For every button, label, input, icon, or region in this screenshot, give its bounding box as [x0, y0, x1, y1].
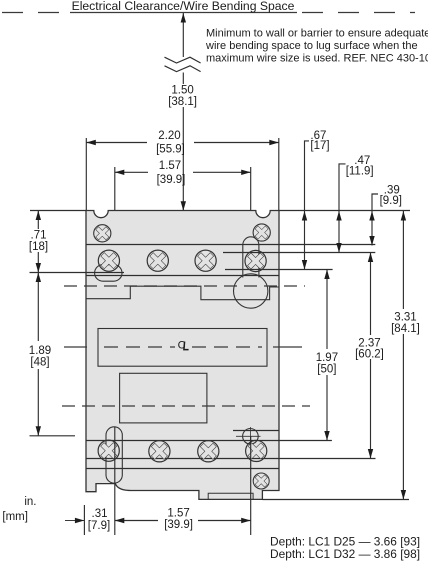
- power terminal screw L2: [145, 248, 170, 273]
- svg-text:1.57: 1.57: [159, 160, 181, 172]
- bottom-right mounting hole: [243, 429, 259, 445]
- svg-text:[55.9]: [55.9]: [156, 144, 185, 156]
- svg-text:[38.1]: [38.1]: [168, 96, 197, 108]
- dimension .67 [17] right: [305, 141, 310, 270]
- svg-text:[39.9]: [39.9]: [157, 174, 186, 186]
- svg-text:1.50: 1.50: [171, 85, 193, 97]
- svg-text:maximum wire size is used. REF: maximum wire size is used. REF. NEC 430-…: [206, 52, 428, 64]
- break symbol: [165, 57, 201, 71]
- svg-text:3.31: 3.31: [394, 312, 416, 324]
- clearance boundary dashed line: [2, 12, 415, 14]
- svg-text:1.89: 1.89: [29, 345, 51, 357]
- dimension 2.37 [60.2] right: [370, 253, 372, 459]
- svg-text:Minimum to wall or barrier to: Minimum to wall or barrier to ensure ade…: [206, 27, 428, 39]
- coil terminal screw bottom-right: [252, 472, 270, 490]
- svg-text:1.57: 1.57: [167, 508, 189, 520]
- right keyhole slot: [243, 237, 259, 278]
- left mounting slot (stadium): [95, 265, 122, 282]
- dimension 1.57 [39.9] bottom: [115, 520, 251, 522]
- svg-text:[18]: [18]: [29, 241, 48, 253]
- dimension .71 [18] left: [30, 211, 125, 273]
- svg-text:[mm]: [mm]: [2, 511, 28, 523]
- dimension .39 [9.9] right: [372, 194, 378, 246]
- reference extension lines to right-side dimensions: [263, 211, 411, 500]
- contactor body outline: [86, 211, 279, 500]
- wire bending space dashed line upper: [64, 285, 305, 287]
- centerline dashes: [64, 346, 302, 348]
- svg-text:[48]: [48]: [30, 357, 49, 369]
- svg-text:wire bending space to lug surf: wire bending space to lug surface when t…: [205, 40, 418, 52]
- svg-text:Depth: LC1 D32 — 3.86 [98]: Depth: LC1 D32 — 3.86 [98]: [270, 547, 420, 561]
- svg-text:[17]: [17]: [310, 140, 329, 152]
- bottom dimension extension lines: [84, 427, 250, 535]
- wire bending space dashed line lower: [62, 405, 310, 407]
- internal horizontal lines top strip: [86, 245, 279, 469]
- coil terminal screw A1 top-left: [92, 223, 112, 243]
- dimension 1.97 [50] right: [326, 270, 328, 441]
- svg-text:.71: .71: [31, 230, 47, 242]
- auxiliary terminal screw bottom-right: [244, 439, 269, 464]
- svg-text:in.: in.: [24, 496, 36, 508]
- power terminal screw L1: [97, 248, 122, 273]
- svg-text:Electrical Clearance/Wire Bend: Electrical Clearance/Wire Bending Space: [72, 0, 295, 13]
- power terminal screw T2: [147, 439, 172, 464]
- svg-text:[50]: [50]: [317, 364, 336, 376]
- DIN rail tab inner line: [208, 493, 253, 499]
- svg-text:[84.1]: [84.1]: [391, 323, 420, 335]
- svg-text:2.20: 2.20: [158, 130, 180, 142]
- dimension .47 [11.9] right: [339, 164, 346, 253]
- dimension 1.89 [48] left: [30, 273, 76, 436]
- dimension 1.57 [39.9] top: [115, 167, 251, 291]
- right keyhole circle: [234, 274, 268, 308]
- svg-text:[9.9]: [9.9]: [380, 195, 402, 207]
- svg-text:[39.9]: [39.9]: [164, 519, 193, 531]
- coil terminal screw A2 top-right: [252, 223, 272, 243]
- power terminal screw T3: [196, 439, 221, 464]
- svg-text:[7.9]: [7.9]: [88, 520, 110, 532]
- svg-text:[60.2]: [60.2]: [355, 349, 384, 361]
- svg-text:.31: .31: [92, 508, 108, 520]
- power terminal screw L3: [193, 248, 218, 273]
- power terminal screw T1: [96, 438, 121, 463]
- bottom-left mounting slot: [106, 427, 122, 483]
- dimension .31 [7.9] bottom: [65, 520, 84, 522]
- dimension 2.20 [55.9]: [86, 138, 278, 210]
- dimension 3.31 [84.1] right: [402, 211, 404, 500]
- lower rectangle (coil window): [120, 373, 207, 423]
- dimension 1.50 [38.1] vertical leader with break: [182, 13, 184, 210]
- center band rectangle: [98, 329, 267, 367]
- svg-text:1.97: 1.97: [316, 352, 338, 364]
- svg-text:[11.9]: [11.9]: [346, 166, 374, 178]
- cover step outline: [86, 286, 279, 300]
- auxiliary terminal screw top-right: [243, 249, 268, 274]
